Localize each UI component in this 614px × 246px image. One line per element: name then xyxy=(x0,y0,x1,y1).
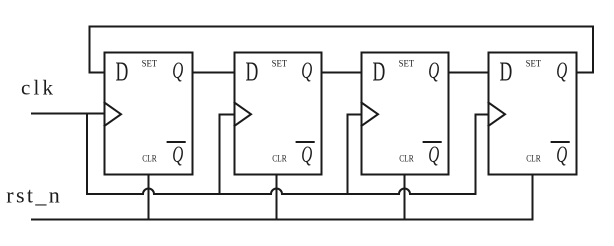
svg-text:Q: Q xyxy=(301,142,312,167)
wire: clk input xyxy=(32,113,105,115)
wire: U2 CLR drop xyxy=(276,175,278,220)
svg-text:D: D xyxy=(116,56,129,86)
wire: U2 Q to U3 D xyxy=(322,72,362,74)
flip-flop U1 box xyxy=(105,53,193,175)
svg-text:clk: clk xyxy=(21,76,54,100)
svg-text:Q: Q xyxy=(428,142,439,167)
U1 Qbar overbar xyxy=(168,141,185,143)
svg-text:D: D xyxy=(373,56,386,86)
flip-flop U4 box xyxy=(489,53,577,175)
wire: U1 Q to U2 D xyxy=(193,72,235,74)
svg-text:Q: Q xyxy=(556,58,567,83)
svg-text:SET: SET xyxy=(272,58,288,69)
svg-text:rst_n: rst_n xyxy=(6,183,60,208)
svg-text:D: D xyxy=(500,56,513,86)
wire: U3 Q to U4 D xyxy=(449,72,489,74)
wire: feedback left drop into U1 D xyxy=(90,27,105,73)
svg-text:Q: Q xyxy=(172,58,183,83)
U2 clock edge triangle xyxy=(235,103,252,126)
svg-text:CLR: CLR xyxy=(142,153,157,164)
wire: clk vertical drop xyxy=(86,114,88,195)
svg-text:D: D xyxy=(246,56,259,86)
wire: feedback right drop from U4 Q xyxy=(577,27,594,73)
svg-text:Q: Q xyxy=(428,58,439,83)
U2 Qbar overbar xyxy=(297,141,314,143)
U4 Qbar overbar xyxy=(552,141,569,143)
flip-flop U3 box xyxy=(362,53,449,175)
svg-text:SET: SET xyxy=(142,58,158,69)
svg-text:CLR: CLR xyxy=(399,153,414,164)
wire: U1 CLR drop xyxy=(148,175,150,220)
wire: feedback top from U4 Q to U1 D xyxy=(90,26,594,28)
wire: rst_n bus xyxy=(32,219,533,221)
wire: clk riser to U4 xyxy=(476,115,489,195)
wire: clk bus with hops over clr drops xyxy=(87,189,476,195)
U3 Qbar overbar xyxy=(424,141,441,143)
U4 clock edge triangle xyxy=(489,103,506,126)
U3 clock edge triangle xyxy=(362,103,379,126)
svg-text:CLR: CLR xyxy=(526,153,541,164)
wire: clk riser to U3 xyxy=(348,115,362,195)
wire: U3 CLR drop xyxy=(404,175,406,220)
U1 clock edge triangle xyxy=(105,103,122,126)
svg-text:Q: Q xyxy=(172,142,183,167)
svg-text:Q: Q xyxy=(301,58,312,83)
svg-text:SET: SET xyxy=(399,58,415,69)
svg-text:Q: Q xyxy=(556,142,567,167)
flip-flop U2 box xyxy=(235,53,322,175)
svg-text:CLR: CLR xyxy=(272,153,287,164)
svg-text:SET: SET xyxy=(526,58,542,69)
wire: clk riser to U2 xyxy=(220,115,235,195)
wire: U4 CLR drop xyxy=(532,175,534,220)
